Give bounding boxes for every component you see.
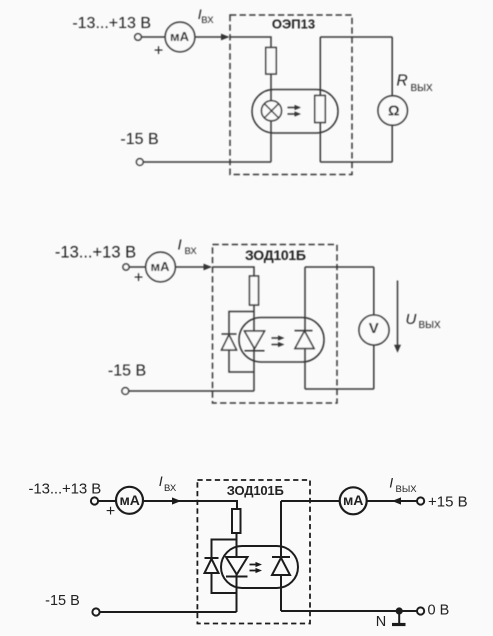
svg-text:ЗОД101Б: ЗОД101Б [227,483,284,498]
resistor R1 [266,48,276,75]
wire output loop top [305,266,374,268]
protection diode VD4 [205,557,219,559]
optocoupler body U3 [221,546,298,588]
light arrow 1 [272,337,281,339]
svg-text:мА: мА [343,492,363,508]
arrowhead input current 3 [172,497,181,504]
svg-text:ВХ: ВХ [185,246,198,257]
svg-text:мА: мА [119,492,139,508]
svg-text:0 В: 0 В [428,603,450,619]
arrow U_vyx [397,281,399,347]
svg-text:-13...+13 В: -13...+13 В [28,481,101,498]
svg-text:U: U [406,311,417,328]
lamp EL1 [262,101,282,121]
wire photodiode branch [280,501,282,611]
wire -15V rail [100,611,237,613]
wire output loop right lower [391,125,393,162]
wire output loop bottom [320,161,392,163]
svg-text:+: + [106,503,115,520]
svg-text:I: I [178,237,182,254]
milliammeter PA1 [165,22,195,52]
terminal +15V [417,497,424,504]
terminal -15V [136,159,143,166]
LED VD2 [245,331,265,349]
wire photodiode branch [304,267,306,389]
wire box edge to resistor corner [230,37,271,48]
wire ammeter to box edge [175,266,210,268]
dashed box ZOD101B [213,245,338,404]
svg-text:-15 В: -15 В [108,363,146,380]
terminal input [135,34,142,41]
svg-text:мА: мА [150,259,170,274]
wire ammeter to box edge [195,36,228,38]
wire photoresistor branch upper [319,37,321,96]
svg-text:ВЫХ: ВЫХ [419,320,442,331]
wire output loop right upper [373,267,375,315]
milliammeter PA3 [116,487,143,514]
resistor R2 [250,276,259,305]
wire resistor to bottom rail through LED [253,305,255,391]
svg-text:-15 В: -15 В [120,131,158,148]
wire output loop right lower [373,345,375,389]
svg-text:+15 В: +15 В [428,493,468,510]
wire input terminal to ammeter [98,500,116,502]
arrowhead U_vyx [394,345,401,353]
svg-text:ВЫХ: ВЫХ [396,484,418,495]
svg-text:-15 В: -15 В [45,593,80,609]
wire -15V rail [129,390,254,392]
arrowhead output current [392,497,401,504]
dashed box ZOD101B [197,480,310,624]
arrowhead input current 2 [204,264,213,271]
dashed box OEP13 [230,15,352,175]
terminal input [91,497,98,504]
svg-text:+: + [134,270,143,287]
wire photoresistor branch lower [319,123,321,163]
ohmmeter PR1 [378,96,407,125]
wire resistor to lamp [270,74,272,101]
svg-text:ОЭП13: ОЭП13 [272,16,315,31]
terminal 0V [417,607,424,614]
light arrow 2 [272,344,281,346]
ground symbol [398,611,400,623]
wire 0V rail [281,610,417,612]
wire output loop top [320,36,392,38]
wire input terminal to ammeter [129,266,146,268]
milliammeter PA4 [340,487,367,514]
wire output to right ammeter [281,500,340,502]
light arrow 1 [250,564,258,566]
svg-text:Ω: Ω [388,104,400,120]
svg-text:ЗОД101Б: ЗОД101Б [245,247,306,263]
svg-text:+: + [154,42,163,59]
wire bypass bottom [229,350,254,372]
light arrow 2 [288,113,297,115]
terminal -15V [122,388,129,395]
wire bypass bottom [212,573,237,593]
svg-text:ВЫХ: ВЫХ [411,83,434,94]
light arrow 1 [288,107,297,109]
LED VD5 [226,557,248,575]
wire bypass top [212,540,237,559]
arrowhead input current [221,34,230,41]
wire right ammeter to +15V terminal [367,500,417,502]
protection diode VD1 [222,333,237,335]
wire output loop right upper [391,37,393,96]
optocoupler body U1 [252,90,338,134]
svg-text:-13...+13 В: -13...+13 В [55,244,136,262]
voltmeter PV1 [359,315,389,345]
svg-text:I: I [389,475,393,491]
wire ammeter to resistor corner [143,501,237,509]
wire bypass top [229,312,254,335]
photoresistor RP1 [315,96,325,123]
svg-text:V: V [369,320,379,337]
svg-text:-13...+13 В: -13...+13 В [72,15,151,32]
terminal -15V [92,608,99,615]
photodiode VD6 [272,556,290,558]
svg-text:ВХ: ВХ [201,15,214,26]
optocoupler body U2 [239,318,324,363]
junction dot node N [396,607,403,614]
svg-text:мА: мА [170,29,190,44]
svg-text:N: N [376,614,386,630]
light arrow 2 [250,570,258,572]
wire output loop bottom [305,388,374,390]
terminal input [123,264,129,270]
resistor R3 [232,509,241,533]
milliammeter PA2 [146,252,176,282]
wire input terminal to ammeter [141,36,164,38]
svg-text:ВХ: ВХ [164,483,177,494]
wire bottom rail to -15V terminal [143,161,271,163]
svg-text:R: R [397,73,408,90]
wire box edge to resistor corner [213,267,255,276]
wire lamp to bottom rail [270,121,272,163]
svg-text:I: I [159,473,163,489]
wire resistor to -15V rail through LED [236,533,238,612]
photodiode VD3 [295,330,313,332]
